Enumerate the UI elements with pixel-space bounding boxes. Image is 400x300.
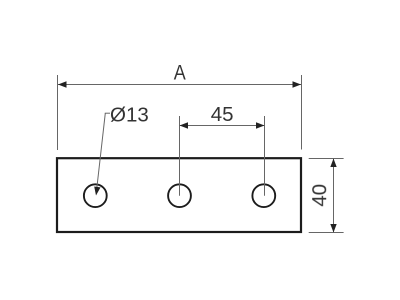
dimension 40 line (333, 159, 335, 233)
hole H1 (84, 184, 107, 207)
svg-text:40: 40 (308, 184, 331, 207)
dimension 40 extension line top (309, 158, 344, 160)
dimension 45 extension line right (264, 116, 266, 196)
dimension A extension line left (57, 75, 59, 150)
svg-text:A: A (174, 61, 187, 85)
leader line Ø13 (97, 113, 106, 190)
plate outline (57, 158, 301, 232)
dimension 45 line (180, 125, 265, 127)
svg-text:Ø13: Ø13 (110, 103, 149, 126)
hole H3 (252, 184, 275, 207)
dimension 40 extension line bottom (309, 232, 344, 234)
dimension 40 arrow top (330, 159, 336, 168)
dimension 40 arrow bottom (330, 224, 336, 233)
dimension A arrow left (58, 81, 67, 87)
dimension A arrow right (293, 81, 302, 87)
dimension A line (58, 84, 301, 86)
dimension 45 extension line left (179, 116, 181, 196)
leader landing tick Ø13 (105, 112, 110, 114)
dimension 45 arrow left (180, 122, 189, 128)
dimension 45 arrow right (256, 122, 265, 128)
dimension A extension line right (301, 75, 303, 150)
svg-text:45: 45 (211, 103, 234, 126)
leader arrowhead Ø13 (94, 187, 100, 196)
hole H2 (168, 184, 191, 207)
